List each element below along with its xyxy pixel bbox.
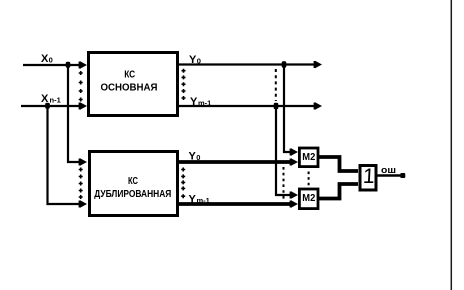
svg-text:Y: Y bbox=[189, 194, 197, 206]
wire Ym-1 dup thick to M2b bbox=[179, 202, 291, 206]
wire output Ym-1 of KC main bbox=[179, 105, 315, 107]
wire output osh bbox=[378, 174, 402, 177]
svg-text:m-1: m-1 bbox=[198, 99, 211, 108]
wire arrow into M2a input1 bbox=[290, 148, 298, 156]
svg-text:М2: М2 bbox=[302, 151, 315, 163]
svg-text:Y: Y bbox=[189, 151, 197, 163]
node junction on Ym-1 bbox=[274, 103, 279, 109]
label Ym-1 dup bbox=[189, 194, 210, 206]
svg-text:n-1: n-1 bbox=[50, 96, 61, 105]
wire arrow into KC dup input1 bbox=[79, 158, 87, 166]
svg-text:0: 0 bbox=[196, 153, 200, 162]
node junction on Xn-1 bbox=[45, 103, 50, 109]
wire arrow into M2a input2 bbox=[290, 158, 298, 166]
wire arrow into M2b input2 bbox=[290, 200, 298, 208]
svg-text:X: X bbox=[41, 93, 49, 105]
dashed ellipsis between M2 inputs bbox=[283, 167, 285, 200]
svg-text:1: 1 bbox=[362, 165, 375, 188]
wire M2b output to OR block bbox=[319, 184, 358, 199]
node junction on Y0 bbox=[282, 61, 287, 67]
wire arrow Ym-1 out bbox=[314, 102, 322, 110]
label Xn-1 bbox=[41, 93, 61, 105]
svg-text:ош: ош bbox=[381, 165, 396, 175]
wire arrow into KC main input2 bbox=[79, 102, 87, 110]
dotted ellipsis left of KC main inputs bbox=[79, 71, 83, 102]
block M2 upper bbox=[299, 148, 318, 167]
svg-text:Y: Y bbox=[189, 54, 197, 66]
wire output Y0 of KC main bbox=[179, 63, 315, 65]
dotted ellipsis left of KC dup inputs bbox=[79, 168, 83, 200]
wire arrow Y0 out bbox=[314, 61, 322, 69]
wire input X0 horizontal bbox=[23, 64, 81, 66]
wire Ym-1 branch down to M2 bottom bbox=[276, 106, 292, 195]
dotted ellipsis right of KC main outputs bbox=[182, 69, 186, 100]
label X0 bbox=[41, 53, 53, 65]
svg-text:КС: КС bbox=[128, 176, 138, 187]
wire arrow into KC main input1 bbox=[79, 61, 87, 69]
svg-text:ДУБЛИРОВАННАЯ: ДУБЛИРОВАННАЯ bbox=[94, 189, 171, 200]
block KC duplicate bbox=[90, 152, 178, 216]
node output terminal square bbox=[400, 173, 405, 178]
dashed ellipsis between M2 blocks bbox=[308, 172, 310, 188]
label Y0 main bbox=[189, 54, 201, 66]
svg-text:0: 0 bbox=[197, 57, 201, 66]
svg-text:m-1: m-1 bbox=[197, 196, 210, 205]
wire input Xn-1 horizontal bbox=[21, 105, 81, 107]
wire Y0 branch down to M2 top bbox=[284, 65, 292, 153]
wire arrow into KC dup input2 bbox=[79, 200, 87, 208]
svg-text:КС: КС bbox=[124, 70, 135, 81]
svg-text:0: 0 bbox=[49, 56, 53, 65]
block OR gate 1 bbox=[360, 166, 376, 191]
wire M2a output to OR block bbox=[319, 157, 358, 171]
node junction on X0 bbox=[66, 62, 71, 68]
block KC main bbox=[89, 53, 178, 116]
label Y0 dup bbox=[189, 151, 201, 163]
svg-text:ОСНОВНАЯ: ОСНОВНАЯ bbox=[101, 83, 158, 94]
block M2 lower bbox=[299, 189, 318, 209]
wire arrow into M2b input1 bbox=[290, 191, 298, 199]
wire Y0 dup thick to M2a bbox=[179, 160, 291, 164]
wire Xn-1 branch down to duplicate block bbox=[48, 106, 81, 204]
dotted ellipsis right of KC dup outputs bbox=[181, 168, 185, 199]
label Ym-1 main bbox=[190, 96, 211, 108]
svg-text:М2: М2 bbox=[302, 192, 315, 204]
wire X0 branch down to duplicate block bbox=[68, 65, 80, 162]
dashed ellipsis between Y0 and Ym-1 at right bbox=[275, 69, 277, 101]
svg-text:Y: Y bbox=[190, 96, 198, 108]
right page border line bbox=[450, 0, 452, 290]
